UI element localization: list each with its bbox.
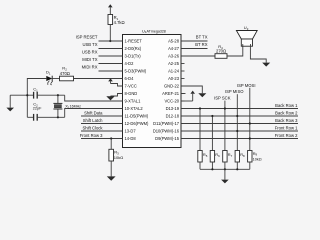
wire ISP MOSI drop — [249, 88, 251, 124]
svg-text:10kΩ: 10kΩ — [253, 158, 262, 162]
IC pin 8 stub+label — [120, 93, 123, 95]
LED D1 — [46, 76, 52, 81]
wire R2 to pin 6 — [74, 78, 123, 80]
IC pin 3 stub+label — [120, 55, 123, 57]
junction col4/FrontRow1 — [236, 130, 238, 132]
svg-text:Shift Data: Shift Data — [84, 111, 103, 116]
wire pin20 VCC — [181, 100, 193, 102]
IC pin 12 stub+label — [120, 123, 123, 125]
wire speaker to ground — [250, 46, 266, 62]
wire left rail top corner to LED D1 — [27, 79, 46, 96]
ground symbol (crystal caps) — [9, 95, 11, 107]
wire D1 to R2 — [52, 78, 59, 80]
svg-text:13-D7: 13-D7 — [125, 129, 137, 134]
IC U1 ATmega328 body — [123, 35, 182, 148]
junction node R1/ISP RESET — [109, 40, 111, 42]
ground symbol (pin8) — [110, 95, 112, 97]
svg-text:Front Row 3: Front Row 3 — [80, 133, 103, 138]
IC pin 10 stub+label — [120, 108, 123, 110]
wire XTAL1 net — [10, 94, 33, 96]
wire pulldown column 4 — [236, 116, 238, 151]
wire ISP SCK drop — [224, 101, 226, 109]
svg-text:10-XTAL2: 10-XTAL2 — [125, 106, 144, 111]
svg-text:VCC-20: VCC-20 — [164, 99, 179, 104]
wire USB RX to pin 3 — [99, 55, 123, 57]
resistor R7 body — [223, 151, 227, 163]
resistor R4 body — [215, 54, 227, 59]
resistor R3 body — [109, 149, 114, 161]
svg-text:A2-25: A2-25 — [168, 61, 180, 66]
svg-text:A5-28: A5-28 — [168, 39, 180, 44]
wire R7 to bus — [224, 162, 226, 169]
resistor R8 body — [235, 151, 239, 163]
svg-text:11-D5(PWM): 11-D5(PWM) — [125, 114, 149, 119]
svg-text:1-RESET: 1-RESET — [125, 39, 143, 44]
svg-text:8-GND: 8-GND — [125, 91, 138, 96]
IC right pin 22 stub+label — [181, 85, 185, 87]
svg-text:A4-27: A4-27 — [168, 46, 180, 51]
wire to R3 — [110, 139, 112, 150]
power arrow VCC (R1 top) — [109, 7, 111, 14]
wire ISP MISO drop — [236, 94, 238, 116]
svg-text:MIDI TX: MIDI TX — [82, 57, 97, 62]
IC pin 2 stub+label — [120, 48, 123, 50]
wire Back Row 3 — [181, 123, 298, 125]
wire BT RX pin — [181, 48, 208, 50]
wire USB TX to pin 2 — [99, 48, 123, 50]
IC pin 13 stub+label — [120, 130, 123, 132]
IC right pin 23 stub+label — [181, 78, 185, 80]
svg-text:9-XTAL1: 9-XTAL1 — [125, 99, 142, 104]
IC pin 5 stub+label — [120, 70, 123, 72]
resistor R1 body — [108, 15, 113, 25]
svg-text:A3-26: A3-26 — [168, 54, 180, 59]
junction crystal top — [57, 94, 59, 96]
junction col2/BackRow2 — [211, 115, 213, 117]
wire left rail (C1/C2 common) — [26, 95, 28, 117]
wire Shift Latch to pin 12 — [81, 123, 123, 125]
wire R4 to speaker — [227, 46, 243, 56]
capacitor C1 — [33, 92, 35, 99]
ground symbol (R3) — [110, 161, 112, 176]
svg-text:ISP MOSI: ISP MOSI — [237, 83, 256, 88]
wire pin8 GND jog — [111, 94, 123, 97]
IC pin 11 stub+label — [120, 115, 123, 117]
svg-text:MIDI RX: MIDI RX — [82, 64, 98, 69]
wire C1 to crystal node — [37, 94, 64, 96]
svg-text:USB TX: USB TX — [82, 42, 97, 47]
svg-text:ISP MISO: ISP MISO — [225, 89, 244, 94]
svg-text:6-D4: 6-D4 — [125, 76, 135, 81]
svg-text:Shift Clock: Shift Clock — [82, 126, 103, 131]
junction col1/BackRow1 — [199, 107, 201, 109]
svg-text:D12-18: D12-18 — [166, 114, 180, 119]
ground bus — [200, 168, 250, 170]
svg-text:D13-19: D13-19 — [166, 106, 180, 111]
wire MIDI RX to pin 5 — [99, 70, 123, 72]
junction bus — [236, 168, 238, 170]
wire C2 to crystal node — [37, 116, 64, 118]
wire pin21 AREF stub — [181, 93, 186, 95]
svg-text:3-D1(Tx): 3-D1(Tx) — [125, 54, 142, 59]
svg-text:D9(PWM)-15: D9(PWM)-15 — [155, 136, 180, 141]
junction Front Row 3 / R3 — [110, 137, 112, 139]
wire XTAL2 net — [27, 116, 33, 118]
IC right pin 17 stub+label — [181, 123, 185, 125]
wire Back Row 1 — [181, 108, 298, 110]
svg-text:7-VCC: 7-VCC — [125, 84, 137, 89]
svg-text:D10(PWM)-16: D10(PWM)-16 — [153, 129, 180, 134]
wire pulldown column 1 — [199, 109, 201, 151]
svg-text:22pF: 22pF — [33, 107, 42, 111]
wire pulldown column 5 — [249, 124, 251, 151]
IC pin 9 stub+label — [120, 100, 123, 102]
svg-text:14-D8: 14-D8 — [125, 136, 137, 141]
junction SCK/BackRow1 — [224, 107, 226, 109]
junction bus — [211, 168, 213, 170]
wire MIDI TX to pin 4 — [99, 63, 123, 65]
resistor R6 body — [210, 151, 214, 163]
wire pin22 GND — [181, 86, 202, 93]
speaker terminals — [242, 44, 244, 46]
IC pin 7 stub+label — [120, 85, 123, 87]
speaker U3 — [236, 31, 257, 40]
resistor R9 body — [248, 151, 252, 163]
wire pin26 to R4 — [181, 55, 215, 57]
wire Back Row 2 — [181, 115, 298, 117]
svg-text:2-D0(Rx): 2-D0(Rx) — [125, 46, 142, 51]
svg-text:5-D3(PWM): 5-D3(PWM) — [125, 69, 147, 74]
junction crystal bottom — [57, 116, 59, 118]
wire Front Row 1 — [181, 130, 298, 132]
IC right pin 25 stub+label — [181, 63, 185, 65]
wire Shift Data to pin 11 — [81, 115, 123, 117]
svg-text:Shift Latch: Shift Latch — [83, 118, 103, 123]
IC right pin 21 stub+label — [181, 93, 185, 95]
IC pin 4 stub+label — [120, 63, 123, 65]
IC right pin 28 stub+label — [181, 40, 185, 42]
wire R1 bottom to ISP RESET net — [109, 25, 111, 42]
IC pin 1 stub+label — [120, 40, 123, 42]
IC pin 14 stub+label — [120, 138, 123, 140]
IC right pin 20 stub+label — [181, 100, 185, 102]
wire R9 to bus — [249, 162, 251, 169]
svg-text:Back Row 2: Back Row 2 — [275, 111, 298, 116]
svg-text:A1-24: A1-24 — [168, 69, 180, 74]
resistor R2 body — [60, 76, 74, 81]
IC right pin 19 stub+label — [181, 108, 185, 110]
wire Shift Clock to pin 13 — [81, 130, 123, 132]
junction rail/XTAL1 wire — [26, 94, 28, 96]
junction bus — [224, 168, 226, 170]
IC right pin 15 stub+label — [181, 138, 185, 140]
svg-text:ISP SCK: ISP SCK — [214, 96, 231, 101]
svg-text:BT TX: BT TX — [196, 34, 208, 39]
svg-text:4.7kΩ: 4.7kΩ — [114, 20, 125, 25]
svg-text:Front Row 2: Front Row 2 — [275, 133, 298, 138]
wire ISP RESET to pin 1 — [99, 40, 123, 42]
junction MISO/BackRow2 — [236, 115, 238, 117]
svg-text:Front Row 1: Front Row 1 — [275, 126, 298, 131]
crystal X1 — [57, 95, 59, 103]
wire jog to pin9 XTAL1 — [65, 95, 123, 101]
svg-text:270Ω: 270Ω — [216, 48, 226, 53]
IC right pin 26 stub+label — [181, 55, 185, 57]
wire R5 to bus — [199, 162, 201, 169]
svg-text:USB RX: USB RX — [82, 49, 98, 54]
junction MOSI/BackRow3 — [249, 122, 251, 124]
svg-text:Back Row 3: Back Row 3 — [275, 118, 298, 123]
wire Front Row 2 — [181, 138, 298, 140]
svg-text:470Ω: 470Ω — [60, 71, 70, 76]
svg-text:4-D2: 4-D2 — [125, 61, 135, 66]
wire R6 to bus — [211, 162, 213, 169]
wire pulldown column 3 — [224, 109, 226, 151]
svg-text:10kΩ: 10kΩ — [114, 155, 123, 160]
ground symbol (speaker) — [265, 62, 267, 64]
capacitor C2 — [33, 114, 35, 121]
power arrow VCC (pin7) — [110, 81, 112, 83]
wire R8 to bus — [236, 162, 238, 169]
wire BT TX pin — [181, 40, 208, 42]
ground symbol (pulldown bus) — [224, 169, 226, 179]
svg-text:A0-23: A0-23 — [168, 76, 180, 81]
LED D1 emission arrows — [47, 81, 52, 84]
ground symbol (pin22) — [201, 92, 203, 94]
power arrow VCC (pin20) — [192, 94, 194, 101]
svg-text:AREF-21: AREF-21 — [162, 91, 180, 96]
svg-text:Back Row 1: Back Row 1 — [275, 103, 298, 108]
wire pulldown column 2 — [211, 116, 213, 151]
IC right pin 16 stub+label — [181, 130, 185, 132]
svg-text:ISP RESET: ISP RESET — [76, 34, 98, 39]
svg-text:12-D6(PWM): 12-D6(PWM) — [125, 121, 150, 126]
wire jog to pin10 XTAL2 — [65, 109, 123, 118]
IC pin 6 stub+label — [120, 78, 123, 80]
IC right pin 24 stub+label — [181, 70, 185, 72]
svg-text:D11(PWM)-17: D11(PWM)-17 — [153, 121, 180, 126]
IC right pin 18 stub+label — [181, 115, 185, 117]
IC right pin 27 stub+label — [181, 48, 185, 50]
svg-text:GND-22: GND-22 — [164, 84, 180, 89]
svg-text:BT RX: BT RX — [195, 42, 207, 47]
junction col5/FrontRow2 — [249, 137, 251, 139]
resistor R5 body — [198, 151, 202, 163]
wire Front Row 3 to pin 14 — [81, 138, 123, 140]
wire pin7 VCC jog — [111, 84, 123, 87]
